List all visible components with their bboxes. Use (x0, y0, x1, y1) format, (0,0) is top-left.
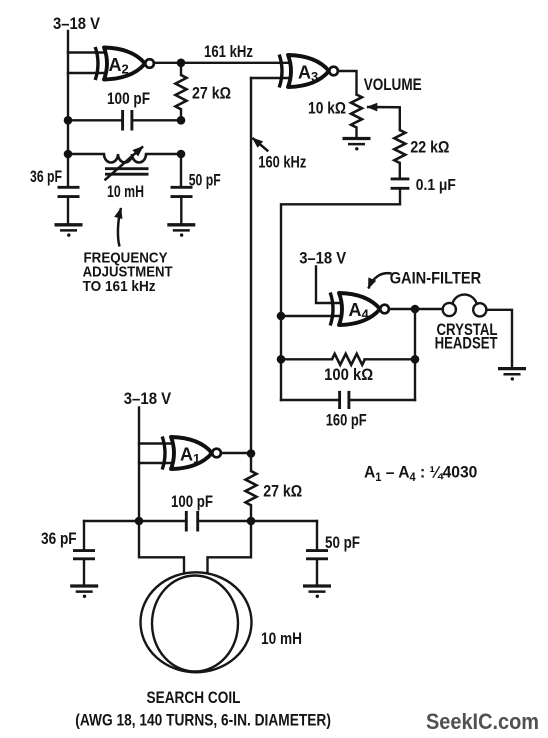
node dot left rail / inductor (64, 150, 73, 159)
ground (under 36 pF bottom) (70, 586, 98, 598)
svg-text:TO 161 kHz: TO 161 kHz (83, 278, 156, 295)
wire supply rail left x68 (67, 31, 69, 187)
wire A2 bottom input stub (68, 72, 108, 74)
wire right corner to 50pF (316, 521, 318, 550)
arrow frequency adjustment pointer (118, 208, 121, 247)
node dot 100k left (277, 355, 286, 364)
svg-text:SEARCH COIL: SEARCH COIL (147, 688, 241, 707)
ground (under 36 pF top) (55, 225, 83, 237)
wire inductor row (68, 153, 181, 155)
node dot A1 rail / 100pF (135, 517, 144, 526)
svg-text:10 mH: 10 mH (107, 182, 144, 201)
wire A1 top input stub (139, 442, 175, 444)
svg-text:3–18 V: 3–18 V (124, 389, 172, 408)
inductor 10 mH (variable) (104, 147, 149, 181)
svg-text:A1 – A4 : ¼4030: A1 – A4 : ¼4030 (364, 463, 477, 484)
wire A3 bottom input stub (251, 77, 294, 79)
wire A4 supply and top stub (316, 267, 344, 304)
wire A2 top input stub (68, 51, 108, 53)
svg-text:3–18 V: 3–18 V (53, 14, 101, 33)
label A1-A4 : 1/4 4030 (364, 463, 477, 484)
capacitor 36 pF (bottom) (73, 551, 95, 586)
wire cap down-left to A4 rail (281, 188, 400, 400)
svg-text:VOLUME: VOLUME (364, 75, 422, 94)
crystal headset symbol (443, 295, 487, 317)
wire A1 supply rail (138, 408, 140, 522)
resistor 22 kOhm (394, 130, 405, 163)
op-gate A2 (95, 47, 154, 80)
node dot A1 output (247, 449, 256, 458)
svg-text:36 pF: 36 pF (41, 529, 77, 548)
capacitor 100 pF (bottom) (186, 511, 197, 532)
wire 100pF row (68, 119, 181, 121)
capacitor 0.1 uF (391, 179, 410, 188)
wire A4 feedback right rail (414, 309, 416, 400)
node dot right rail / 100pF (177, 116, 186, 125)
potentiometer 10 kOhm (351, 95, 362, 139)
svg-text:160 kHz: 160 kHz (258, 153, 306, 172)
arrow 160 kHz pointer (253, 138, 269, 151)
resistor 100 kOhm (332, 354, 365, 365)
svg-text:SeekIC.com: SeekIC.com (426, 709, 539, 734)
svg-text:22 kΩ: 22 kΩ (410, 138, 449, 157)
ground (under potentiometer) (343, 139, 371, 151)
node dot A2 output (177, 59, 186, 68)
svg-text:3–18 V: 3–18 V (299, 248, 347, 267)
wire A1 output (222, 452, 251, 454)
node dot A4 input rail (277, 312, 286, 321)
svg-text:161 kHz: 161 kHz (204, 42, 253, 61)
wire 100k row (281, 358, 415, 360)
wire 160pF row (281, 399, 415, 401)
capacitor 36 pF (top) (58, 187, 80, 224)
label FREQUENCY ADJUSTMENT TO 161 kHz (83, 250, 173, 295)
svg-text:50 pF: 50 pF (325, 533, 360, 552)
resistor 27 kOhm (bottom) (246, 454, 257, 522)
resistor 27 kOhm (top) (176, 63, 187, 121)
svg-text:160 pF: 160 pF (326, 411, 367, 430)
node dot A4 output (411, 305, 420, 314)
capacitor 160 pF (340, 391, 349, 409)
ground (headset) (498, 369, 526, 381)
wire A4 bottom input stub (281, 315, 344, 317)
wire A4 output (390, 308, 442, 310)
svg-text:10 mH: 10 mH (261, 629, 302, 648)
arrow gain-filter pointer (368, 273, 391, 288)
wire left corner to 36pF (83, 521, 85, 550)
node dot left rail / 100pF (64, 116, 73, 125)
search coil 10 mH (141, 572, 252, 672)
wire A1 bottom input stub (139, 462, 175, 464)
svg-text:(AWG 18, 140 TURNS, 6-IN. DIAM: (AWG 18, 140 TURNS, 6-IN. DIAMETER) (75, 711, 331, 730)
wire coil right lead (208, 521, 252, 573)
wire wiper to 22k (399, 107, 401, 130)
svg-text:100 pF: 100 pF (171, 492, 213, 511)
op-gate A3 (279, 55, 338, 88)
node dot 100k right (411, 355, 420, 364)
op-gate A4 (330, 293, 389, 326)
wire A3 output (339, 71, 356, 95)
capacitor 100 pF (top) (123, 110, 132, 131)
svg-text:HEADSET: HEADSET (435, 333, 498, 352)
wire 22k to cap (399, 163, 401, 179)
svg-text:50 pF: 50 pF (189, 170, 221, 189)
svg-text:100 kΩ: 100 kΩ (324, 365, 373, 384)
ground (under 50 pF top) (167, 225, 195, 237)
svg-text:10 kΩ: 10 kΩ (308, 99, 346, 118)
wire 50pF drop (180, 154, 182, 187)
wire 100pF row (bottom) (84, 520, 317, 522)
capacitor 50 pF (bottom) (306, 551, 328, 586)
ground (under 50 pF bottom) (303, 586, 331, 598)
svg-text:27 kΩ: 27 kΩ (263, 482, 302, 501)
wire 160 kHz vertical rail (250, 78, 252, 454)
svg-text:27 kΩ: 27 kΩ (192, 84, 231, 103)
svg-text:GAIN-FILTER: GAIN-FILTER (390, 269, 482, 288)
wire headset to ground (486, 310, 512, 369)
node dot 27k / 100pF (247, 517, 256, 526)
wire A2 output to A3 input (161 kHz line) (155, 62, 290, 64)
wire coil left lead (139, 521, 184, 573)
node dot right rail / inductor (177, 150, 186, 159)
svg-text:0.1 μF: 0.1 μF (416, 177, 456, 194)
svg-text:100 pF: 100 pF (107, 89, 150, 108)
capacitor 50 pF (top) (171, 187, 193, 224)
svg-text:36 pF: 36 pF (30, 167, 62, 186)
op-gate A1 (162, 437, 221, 470)
arrow potentiometer wiper (367, 106, 400, 109)
